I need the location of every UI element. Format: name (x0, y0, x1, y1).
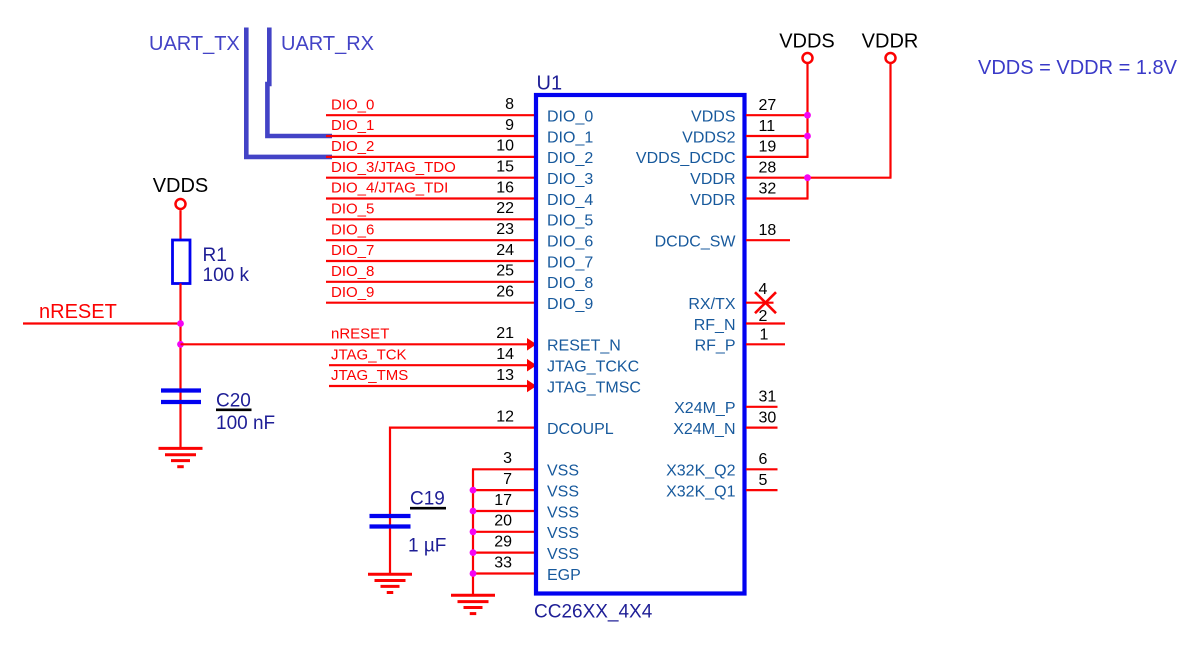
svg-text:VSS: VSS (547, 483, 579, 500)
wire C20 to ground (179, 404, 181, 448)
wire VSS pin 33 (472, 572, 535, 574)
svg-text:DIO_4/JTAG_TDI: DIO_4/JTAG_TDI (331, 180, 448, 197)
no-connect X on RX/TX (755, 292, 776, 313)
svg-text:26: 26 (496, 284, 514, 301)
junction VDDR pin 28 (804, 174, 811, 181)
svg-text:DIO_8: DIO_8 (547, 275, 593, 292)
wire VDDR rail vertical (889, 64, 891, 178)
svg-text:DIO_9: DIO_9 (331, 284, 374, 301)
svg-text:25: 25 (496, 263, 514, 280)
wire JTAG_TMS (329, 385, 528, 387)
label C19 underline (410, 507, 446, 510)
svg-text:11: 11 (759, 118, 776, 135)
wire DIO_4 net (326, 197, 535, 199)
wire VDDS rail vertical (806, 64, 808, 157)
capacitor C20 top plate (161, 388, 201, 392)
wire VSS bus vertical (472, 469, 474, 595)
svg-text:12: 12 (496, 408, 514, 425)
svg-text:X24M_P: X24M_P (674, 400, 735, 417)
svg-text:DIO_2: DIO_2 (331, 138, 374, 155)
svg-text:27: 27 (759, 97, 777, 114)
svg-text:19: 19 (759, 139, 777, 156)
svg-text:100 nF: 100 nF (216, 413, 275, 434)
input arrow JTAG_TMSC (527, 380, 537, 393)
wire VDDS to R1 (179, 210, 181, 241)
svg-text:RX/TX: RX/TX (688, 296, 735, 313)
svg-text:23: 23 (496, 221, 514, 238)
wire pin 11 (746, 135, 809, 137)
svg-text:JTAG_TMSC: JTAG_TMSC (547, 379, 641, 396)
svg-text:DIO_5: DIO_5 (331, 201, 374, 218)
svg-text:JTAG_TCK: JTAG_TCK (331, 346, 407, 363)
svg-text:RF_N: RF_N (694, 317, 736, 334)
svg-text:nRESET: nRESET (39, 301, 117, 323)
svg-text:nRESET: nRESET (331, 326, 389, 343)
svg-text:C19: C19 (410, 489, 445, 510)
wire DIO_3 net (326, 177, 535, 179)
svg-text:31: 31 (759, 389, 777, 406)
svg-text:30: 30 (759, 409, 777, 426)
input arrow RESET_N (527, 338, 537, 351)
svg-text:DCDC_SW: DCDC_SW (655, 234, 737, 251)
svg-text:VDDR: VDDR (862, 31, 919, 53)
wire C19 to ground (389, 529, 391, 575)
capacitor C20 bottom plate (161, 400, 201, 404)
svg-text:DIO_8: DIO_8 (331, 263, 374, 280)
svg-text:DIO_0: DIO_0 (331, 96, 374, 113)
svg-text:DIO_2: DIO_2 (547, 150, 593, 167)
svg-text:DCOUPL: DCOUPL (547, 421, 614, 438)
wire DIO_5 net (326, 218, 535, 220)
wire pin 4 RX/TX stub (746, 302, 774, 304)
wire pin 1 RF_P stub (746, 343, 785, 345)
svg-text:32: 32 (759, 180, 777, 197)
wire pin 31 stub (746, 406, 778, 408)
svg-text:DIO_6: DIO_6 (547, 234, 593, 251)
svg-text:15: 15 (496, 159, 514, 176)
junction VDDS pin 11 (804, 133, 811, 140)
capacitor C19 bottom plate (370, 524, 411, 528)
junction VSS bus 20 (470, 528, 477, 535)
svg-text:13: 13 (496, 367, 514, 384)
svg-text:DIO_9: DIO_9 (547, 296, 593, 313)
wire pin 18 (746, 239, 790, 241)
svg-text:VSS: VSS (547, 504, 579, 521)
svg-text:DIO_3/JTAG_TDO: DIO_3/JTAG_TDO (331, 159, 456, 176)
power port VDDS (left) circle (176, 199, 186, 209)
wire VSS pin 7 (472, 489, 535, 491)
resistor R1 (173, 240, 191, 284)
svg-text:U1: U1 (537, 73, 563, 95)
wire nRESET (23, 322, 182, 324)
svg-text:20: 20 (494, 513, 512, 530)
capacitor C19 top plate (370, 514, 411, 518)
junction VSS bus 17 (470, 508, 477, 515)
wire DIO_0 net (326, 114, 535, 116)
wire VSS pin 3 (472, 468, 535, 470)
svg-text:JTAG_TCKC: JTAG_TCKC (547, 359, 639, 376)
wire DIO_7 net (326, 260, 535, 262)
svg-text:DIO_6: DIO_6 (331, 221, 374, 238)
svg-text:VDDS2: VDDS2 (682, 129, 735, 146)
wire DIO_1 net (326, 135, 535, 137)
svg-text:10: 10 (496, 138, 514, 155)
wire pin 28 (746, 177, 892, 179)
svg-text:9: 9 (505, 117, 514, 134)
svg-text:X24M_N: X24M_N (673, 421, 735, 438)
wire pin 2 RF_N stub (746, 322, 785, 324)
svg-text:1: 1 (760, 327, 769, 344)
svg-text:DIO_7: DIO_7 (547, 254, 593, 271)
junction RESET branch (177, 341, 184, 348)
power port VDDR circle (886, 53, 896, 63)
svg-text:DIO_7: DIO_7 (331, 242, 374, 259)
svg-text:VDDR: VDDR (690, 171, 735, 188)
svg-text:VDDS: VDDS (691, 109, 735, 126)
svg-text:33: 33 (494, 554, 512, 571)
wire node to RESET_N pin (181, 343, 528, 345)
wire UART_RX (267, 28, 332, 137)
junction VDDS pin 27 (804, 112, 811, 119)
junction on nRESET node (177, 320, 184, 327)
svg-text:DIO_1: DIO_1 (547, 129, 593, 146)
svg-text:R1: R1 (203, 245, 227, 266)
svg-text:8: 8 (505, 96, 514, 113)
svg-text:UART_TX: UART_TX (149, 33, 240, 55)
svg-text:VSS: VSS (547, 525, 579, 542)
svg-text:21: 21 (496, 325, 514, 342)
svg-text:DIO_1: DIO_1 (331, 117, 374, 134)
svg-text:VDDS_DCDC: VDDS_DCDC (636, 150, 736, 167)
svg-text:1 µF: 1 µF (408, 536, 446, 557)
svg-text:UART_RX: UART_RX (281, 33, 374, 55)
junction VSS bus 33 (470, 570, 477, 577)
svg-text:VSS: VSS (547, 546, 579, 563)
wire pin 32 (746, 197, 809, 199)
svg-text:7: 7 (503, 471, 512, 488)
svg-text:C20: C20 (216, 391, 251, 412)
wire pin 5 stub (746, 489, 778, 491)
ground below VSS bus (451, 594, 495, 597)
svg-text:2: 2 (759, 308, 768, 325)
svg-text:14: 14 (496, 346, 514, 363)
power port VDDS (right) circle (803, 53, 813, 63)
wire UART_TX (246, 28, 332, 157)
wire JTAG_TCK (329, 364, 528, 366)
IC U1 body (536, 95, 745, 594)
svg-text:29: 29 (494, 533, 512, 550)
svg-text:RESET_N: RESET_N (547, 338, 621, 355)
svg-text:VDDR: VDDR (690, 192, 735, 209)
ground below C19 (368, 573, 412, 576)
svg-text:28: 28 (759, 160, 777, 177)
svg-text:17: 17 (494, 492, 512, 509)
wire R1 to node (179, 284, 181, 402)
svg-text:22: 22 (496, 200, 514, 217)
svg-text:24: 24 (496, 242, 514, 259)
svg-text:CC26XX_4X4: CC26XX_4X4 (534, 602, 653, 623)
svg-text:3: 3 (503, 450, 512, 467)
svg-text:100 k: 100 k (203, 265, 250, 286)
ground below C20 (159, 447, 203, 450)
label C20 underline (216, 408, 252, 411)
svg-text:DIO_3: DIO_3 (547, 171, 593, 188)
svg-text:RF_P: RF_P (695, 338, 736, 355)
wire DIO_8 net (326, 281, 535, 283)
svg-text:16: 16 (496, 179, 514, 196)
svg-text:X32K_Q2: X32K_Q2 (666, 463, 735, 480)
svg-text:VDDS: VDDS (153, 175, 209, 197)
svg-text:EGP: EGP (547, 567, 581, 584)
svg-text:DIO_4: DIO_4 (547, 192, 593, 209)
junction VSS bus 29 (470, 549, 477, 556)
svg-text:6: 6 (759, 451, 768, 468)
svg-text:JTAG_TMS: JTAG_TMS (331, 367, 408, 384)
wire pin 30 stub (746, 427, 778, 429)
wire DCOUPL (390, 428, 535, 526)
svg-text:VSS: VSS (547, 463, 579, 480)
wire VSS pin 17 (472, 510, 535, 512)
wire VSS pin 29 (472, 551, 535, 553)
svg-text:5: 5 (759, 472, 768, 489)
svg-text:VDDS: VDDS (779, 31, 835, 53)
input arrow JTAG_TCKC (527, 359, 537, 372)
wire DIO_6 net (326, 239, 535, 241)
wire pin 27 (746, 114, 809, 116)
wire VSS pin 20 (472, 531, 535, 533)
wire pin 19 (746, 156, 809, 158)
svg-text:VDDS = VDDR = 1.8V: VDDS = VDDR = 1.8V (978, 57, 1178, 79)
svg-text:DIO_5: DIO_5 (547, 213, 593, 230)
wire pin 6 stub (746, 468, 778, 470)
wire DIO_9 net (326, 302, 535, 304)
svg-text:DIO_0: DIO_0 (547, 109, 593, 126)
wire DIO_2 net (326, 156, 535, 158)
svg-text:18: 18 (759, 222, 777, 239)
svg-text:X32K_Q1: X32K_Q1 (666, 483, 735, 500)
junction VSS bus 7 (470, 487, 477, 494)
wire pin 32 riser (806, 178, 808, 199)
